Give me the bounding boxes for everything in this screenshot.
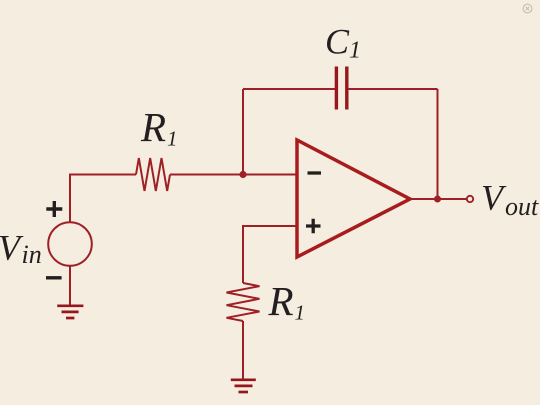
resistor R1 (vertical zigzag to ground) xyxy=(227,283,260,321)
wire: source bottom to ground xyxy=(69,266,71,305)
capacitor C1 plates xyxy=(336,67,346,110)
node A: junction dot at inverting input branch xyxy=(239,171,246,178)
wire: input from source top to horizontal run xyxy=(70,175,136,223)
wire: non-inverting input xyxy=(243,226,297,283)
wire: feedback top right horizontal xyxy=(348,88,438,90)
minus sign below source xyxy=(46,276,62,279)
watermark circle-x top right xyxy=(523,4,532,13)
wire: feedback right vertical down to output xyxy=(437,89,439,199)
ground (below source) xyxy=(57,306,83,318)
op-amp plus input sign xyxy=(306,219,321,234)
node: output junction dot xyxy=(434,196,441,203)
output terminal (open circle) xyxy=(467,196,473,202)
ground (below bottom resistor) xyxy=(231,380,256,392)
wire: op-amp output xyxy=(410,198,467,200)
voltage source Vin circle xyxy=(48,222,92,266)
wire: resistor to op-amp inverting input xyxy=(170,174,297,176)
wire: feedback top left horizontal xyxy=(243,88,335,90)
wire: resistor to ground xyxy=(242,321,244,379)
wire: feedback left vertical xyxy=(242,89,244,175)
op-amp minus input sign xyxy=(308,171,322,174)
plus sign above source xyxy=(46,201,62,217)
op-amp U1 triangle xyxy=(297,140,410,257)
resistor R1 (horizontal zigzag) xyxy=(136,158,170,191)
